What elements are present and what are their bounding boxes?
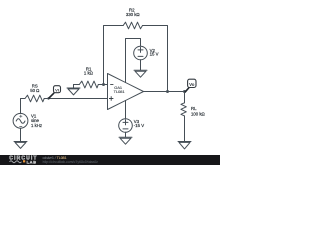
- svg-text:RL: RL: [191, 106, 197, 111]
- svg-text:1 kΩ: 1 kΩ: [84, 71, 94, 76]
- svg-text:1 kHz: 1 kHz: [31, 123, 42, 128]
- svg-text:http://circuitlab.com/c7y68c54: http://circuitlab.com/c7y68c54daa8z: [43, 160, 99, 164]
- svg-text:VI: VI: [55, 87, 59, 92]
- svg-text:330 kΩ: 330 kΩ: [126, 12, 141, 17]
- svg-text:Vo: Vo: [189, 82, 195, 87]
- svg-text:LAB: LAB: [27, 159, 37, 164]
- svg-text:TL081: TL081: [114, 89, 125, 94]
- svg-text:-15 V: -15 V: [134, 123, 144, 128]
- svg-text:15 V: 15 V: [150, 51, 159, 56]
- svg-text:100 kΩ: 100 kΩ: [191, 111, 206, 116]
- svg-text:50 Ω: 50 Ω: [30, 88, 40, 93]
